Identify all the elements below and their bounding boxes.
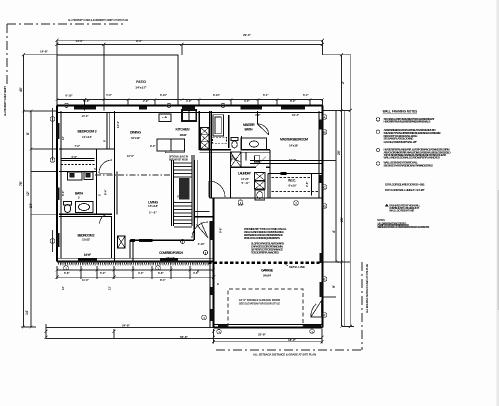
svg-text:W.I.C.: W.I.C. [288, 179, 296, 183]
svg-text:10'x12': 10'x12' [180, 133, 187, 137]
svg-text:8'-4": 8'-4" [104, 189, 108, 195]
svg-text:6'x10': 6'x10' [289, 184, 297, 188]
svg-text:8'-0": 8'-0" [290, 99, 296, 103]
svg-text:9': 9' [332, 285, 336, 288]
svg-text:12': 12' [108, 286, 112, 290]
svg-text:1ST FLOOR WALL HEIGHT = 9'-1 1: 1ST FLOOR WALL HEIGHT = 9'-1 1/8" [385, 188, 425, 192]
svg-text:6'-8": 6'-8" [64, 271, 70, 275]
svg-text:9'-0": 9'-0" [150, 144, 156, 148]
svg-text:13'-4": 13'-4" [116, 120, 120, 128]
svg-text:14': 14' [25, 310, 29, 315]
svg-text:SEE SHEET A-4 FOR ADDITIONAL F: SEE SHEET A-4 FOR ADDITIONAL FRAMING DET… [384, 164, 433, 168]
svg-text:ALL PROPERTY LINES VERIFY: ALL PROPERTY LINES VERIFY [3, 86, 7, 116]
svg-text:5'-0": 5'-0" [106, 93, 112, 97]
svg-text:14'x17': 14'x17' [135, 86, 147, 90]
svg-text:11'x12': 11'x12' [82, 135, 92, 139]
svg-text:10'x12': 10'x12' [131, 136, 140, 140]
svg-text:9'-0": 9'-0" [136, 39, 143, 43]
svg-text:6'-8": 6'-8" [84, 99, 90, 103]
svg-text:BREAKFAST NOOK: BREAKFAST NOOK [169, 157, 189, 161]
svg-text:5'-8": 5'-8" [242, 181, 251, 185]
svg-text:4': 4' [332, 230, 336, 233]
svg-text:5'-8": 5'-8" [149, 210, 158, 214]
svg-text:WALL LOCATION AT UNIT: WALL LOCATION AT UNIT [389, 209, 414, 213]
svg-text:15'x18': 15'x18' [148, 204, 158, 208]
svg-text:4'-0": 4'-0" [255, 113, 261, 117]
svg-text:6'-1": 6'-1" [263, 93, 269, 97]
svg-text:24'x24': 24'x24' [263, 274, 271, 278]
svg-text:PER LOCAL CODE REQUIREMENTS.: PER LOCAL CODE REQUIREMENTS. [244, 236, 280, 240]
svg-text:2'-8": 2'-8" [305, 181, 309, 187]
svg-text:11'-0": 11'-0" [82, 278, 90, 282]
svg-text:ALL BUILDING SETBACK LINES AT: ALL BUILDING SETBACK LINES AT SITE PLAN [365, 264, 369, 313]
svg-text:2': 2' [341, 81, 345, 84]
svg-text:11'-0": 11'-0" [84, 253, 92, 257]
svg-text:ALL SETBACK DISTANCE & GRADE A: ALL SETBACK DISTANCE & GRADE AT SITE PLA… [253, 353, 316, 357]
svg-text:4'-0": 4'-0" [186, 99, 192, 103]
svg-text:8'-0": 8'-0" [61, 190, 65, 196]
svg-text:18'-0": 18'-0" [288, 338, 296, 342]
svg-text:6'-8": 6'-8" [158, 271, 164, 275]
svg-text:3'-0": 3'-0" [244, 99, 250, 103]
svg-text:LAUNDRY: LAUNDRY [238, 172, 252, 176]
svg-text:GARAGE: GARAGE [261, 269, 274, 273]
svg-text:14'-0": 14'-0" [82, 114, 90, 118]
svg-text:56'-8": 56'-8" [180, 335, 188, 339]
svg-text:SETB. LINE: SETB. LINE [289, 265, 305, 269]
svg-text:8': 8' [26, 132, 30, 135]
svg-text:24': 24' [29, 203, 33, 208]
svg-text:12': 12' [26, 191, 30, 196]
svg-text:MASTER: MASTER [243, 123, 255, 127]
svg-text:4'-0": 4'-0" [138, 271, 144, 275]
svg-text:COVERED PORCH: COVERED PORCH [159, 251, 184, 255]
svg-text:26'x6': 26'x6' [166, 256, 175, 260]
svg-text:ALL PROPERTY LINES & EASEMENTS: ALL PROPERTY LINES & EASEMENTS VERIFY AT… [68, 18, 128, 22]
svg-text:8'-4": 8'-4" [160, 278, 166, 282]
svg-text:6'-4": 6'-4" [303, 93, 309, 97]
svg-text:4'-10": 4'-10" [198, 242, 206, 246]
svg-text:6'-10": 6'-10" [66, 94, 74, 98]
svg-text:14'-0": 14'-0" [76, 39, 84, 43]
svg-text:6'-8": 6'-8" [72, 155, 78, 159]
svg-text:14'x16': 14'x16' [289, 144, 298, 148]
svg-text:2': 2' [336, 260, 340, 263]
svg-text:NOTES:: NOTES: [377, 220, 385, 222]
svg-text:HEADER PER PLAN ALL EXTERIOR A: HEADER PER PLAN ALL EXTERIOR AND BEARING… [384, 120, 431, 124]
svg-text:10'-6": 10'-6" [127, 154, 135, 158]
svg-text:16'-4": 16'-4" [292, 113, 300, 117]
svg-text:29'-0": 29'-0" [243, 33, 251, 37]
svg-text:SEE ELEVATION FOR DOOR STYLE: SEE ELEVATION FOR DOOR STYLE [239, 302, 280, 306]
svg-text:WALL AND HOLDOWN LOCATIONS PER: WALL AND HOLDOWN LOCATIONS PER PLAN NOTE… [384, 155, 441, 159]
svg-text:20': 20' [340, 217, 344, 222]
svg-text:TO DOOR PER PLAN NOTED.: TO DOOR PER PLAN NOTED. [251, 251, 280, 255]
svg-text:GAUGE, COMMON 16" WALL 2'-8": GAUGE, COMMON 16" WALL 2'-8" [384, 140, 418, 144]
svg-text:2'-0": 2'-0" [143, 99, 149, 103]
svg-text:9'-8": 9'-8" [219, 227, 223, 233]
svg-text:11'x12': 11'x12' [82, 238, 90, 242]
svg-text:F: F [324, 314, 326, 318]
svg-text:KITCHEN: KITCHEN [176, 128, 191, 132]
svg-text:BEDROOM 3: BEDROOM 3 [78, 129, 97, 133]
svg-text:1ST FLOOR SQUARE FOOTAGE = 161: 1ST FLOOR SQUARE FOOTAGE = 1611 [385, 183, 425, 187]
svg-text:WALL FRAMING NOTES: WALL FRAMING NOTES [383, 110, 418, 114]
svg-text:24'-8": 24'-8" [122, 323, 130, 327]
svg-text:40': 40' [19, 87, 23, 92]
svg-text:MASTER BEDROOM: MASTER BEDROOM [280, 138, 308, 142]
svg-text:12': 12' [61, 286, 65, 290]
svg-text:3. SEE SHEET A-6 FOR ALL DOOR: 3. SEE SHEET A-6 FOR ALL DOOR AND WINDOW… [377, 226, 430, 229]
svg-text:12': 12' [61, 136, 65, 140]
svg-text:20': 20' [337, 150, 341, 155]
svg-text:E: E [324, 278, 326, 282]
svg-text:6'-10": 6'-10" [160, 93, 168, 97]
svg-text:5'-0": 5'-0" [100, 271, 106, 275]
svg-text:22'-8": 22'-8" [258, 333, 266, 337]
svg-text:76': 76' [19, 181, 23, 186]
svg-text:8'-10": 8'-10" [213, 93, 221, 97]
svg-text:PATIO: PATIO [136, 80, 146, 84]
svg-text:16'-8": 16'-8" [289, 158, 297, 162]
svg-text:DINING: DINING [130, 131, 141, 135]
svg-text:7'-6": 7'-6" [75, 144, 81, 148]
svg-text:14'-8": 14'-8" [40, 50, 48, 54]
svg-text:BATH: BATH [245, 128, 254, 132]
